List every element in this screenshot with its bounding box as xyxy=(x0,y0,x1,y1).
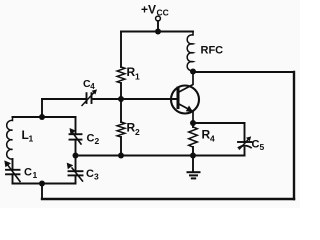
wire top supply rail xyxy=(121,31,193,33)
wire R2 bottom xyxy=(120,137,122,156)
capacitor C5 xyxy=(238,141,252,143)
capacitor C2 xyxy=(70,134,82,139)
transistor Q1 xyxy=(171,86,199,114)
label C3 xyxy=(86,168,99,182)
svg-text:+V: +V xyxy=(141,3,156,17)
capacitor C3 xyxy=(69,171,83,175)
node ground junction xyxy=(190,153,196,159)
wire C2 branch top xyxy=(75,117,77,134)
wire R2 top xyxy=(120,99,122,122)
inductor RFC xyxy=(187,32,193,73)
label RFC xyxy=(201,45,224,57)
C4 trimmer arrow xyxy=(82,93,94,106)
svg-text:1: 1 xyxy=(135,72,140,82)
wire R4 top xyxy=(192,123,194,127)
wire R1 bottom xyxy=(120,83,122,99)
node bottom left junction xyxy=(39,181,45,187)
node tank rail junction xyxy=(39,114,45,120)
label R2 xyxy=(127,121,141,138)
wire tank top rail xyxy=(13,116,76,118)
wire base line right xyxy=(93,98,178,100)
wire collector feedback line xyxy=(193,71,294,73)
wire mid rail xyxy=(76,155,245,157)
capacitor C1 xyxy=(6,170,20,175)
svg-text:3: 3 xyxy=(94,172,99,182)
wire bottom rail xyxy=(42,198,294,200)
node R2 bottom junction xyxy=(118,153,124,159)
node collector junction xyxy=(190,69,196,75)
wire feedback drop xyxy=(41,184,43,200)
wire R1 branch top xyxy=(120,32,122,68)
emitter arrowhead xyxy=(186,105,193,112)
C3 trimmer arrow xyxy=(72,168,83,181)
label C4 xyxy=(83,78,95,91)
resistor R2 xyxy=(117,122,125,137)
wire emitter lead xyxy=(178,104,193,124)
wire emitter to C5 xyxy=(193,122,245,124)
wire collector lead xyxy=(178,72,193,93)
svg-text:2: 2 xyxy=(95,136,100,146)
node Vcc junction xyxy=(155,29,161,35)
node emitter junction xyxy=(190,120,196,126)
wire R4 bottom xyxy=(192,147,194,156)
label C5 xyxy=(252,139,265,153)
resistor R1 xyxy=(117,67,125,83)
C5 trimmer arrow xyxy=(240,139,249,149)
label +Vcc xyxy=(141,3,169,18)
wire C1 bottom xyxy=(12,174,14,183)
resistor R4 xyxy=(189,127,198,147)
wire C3 branch top xyxy=(75,156,77,172)
svg-text:C: C xyxy=(86,168,94,180)
label R1 xyxy=(127,65,141,82)
+Vcc terminal xyxy=(156,16,161,21)
wire C3 bottom xyxy=(75,175,77,183)
node base divider junction xyxy=(118,96,124,102)
wire C4 drop to tank rail xyxy=(41,99,43,117)
svg-text:4: 4 xyxy=(90,82,95,91)
svg-text:RFC: RFC xyxy=(201,45,224,57)
svg-text:2: 2 xyxy=(135,127,140,137)
wire base line left xyxy=(42,98,85,100)
wire C2 bottom xyxy=(75,140,77,156)
svg-text:C: C xyxy=(252,139,260,151)
svg-text:5: 5 xyxy=(260,142,265,152)
label C1 xyxy=(24,167,38,181)
wire C5 top xyxy=(244,123,246,142)
svg-text:1: 1 xyxy=(33,170,38,180)
wire right riser xyxy=(293,72,295,199)
label R4 xyxy=(202,128,216,144)
C1 trimmer arrow xyxy=(8,165,21,182)
inductor L1 xyxy=(7,117,13,159)
C2 trimmer arrow xyxy=(72,132,81,144)
wire bottom left rail xyxy=(13,183,76,185)
capacitor C4 xyxy=(87,93,92,103)
svg-text:CC: CC xyxy=(157,8,169,18)
svg-text:1: 1 xyxy=(29,134,34,144)
label C2 xyxy=(87,133,100,147)
wire L1 to C1 xyxy=(12,159,14,170)
svg-text:4: 4 xyxy=(210,134,215,144)
label L1 xyxy=(22,128,34,144)
svg-text:C: C xyxy=(24,167,32,179)
wire Vcc stem xyxy=(157,21,159,32)
wire C5 bottom xyxy=(244,148,246,156)
node C2 C3 junction xyxy=(73,153,79,159)
ground xyxy=(192,156,194,172)
svg-text:C: C xyxy=(87,133,95,145)
